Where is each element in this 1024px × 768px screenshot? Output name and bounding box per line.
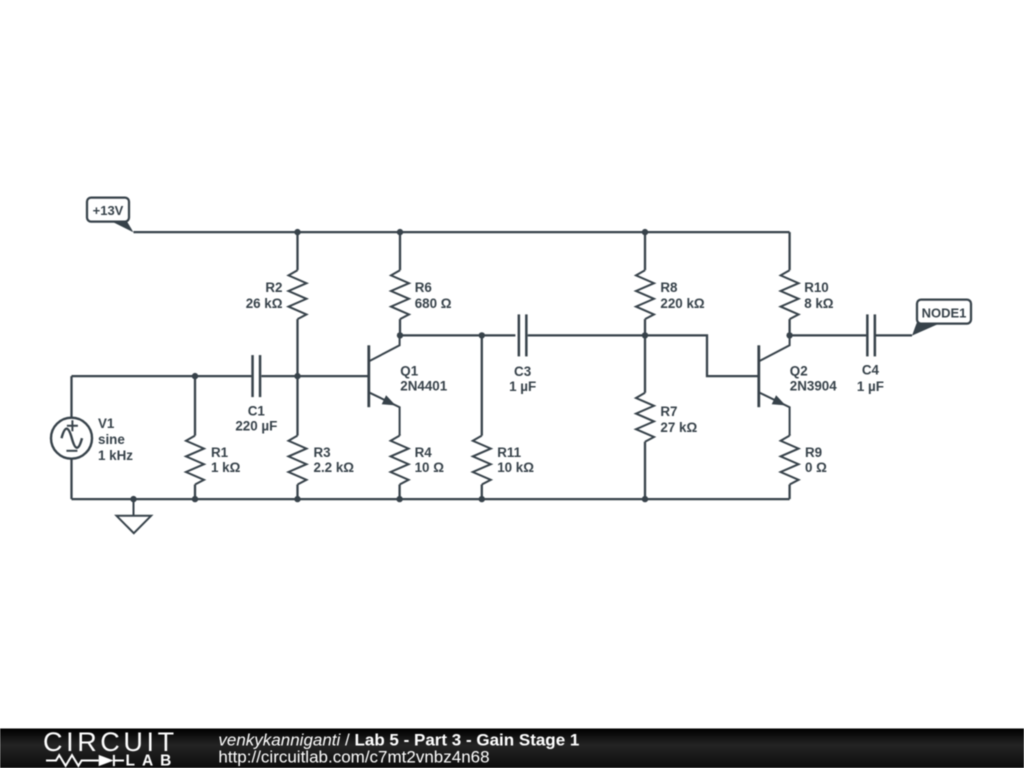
svg-text:R3: R3 xyxy=(314,445,331,460)
junction top rail at R6 xyxy=(397,229,403,235)
svg-text:R4: R4 xyxy=(415,445,433,460)
svg-text:2.2 kΩ: 2.2 kΩ xyxy=(314,460,355,475)
svg-text:1 kΩ: 1 kΩ xyxy=(211,460,241,475)
ground symbol xyxy=(117,499,152,533)
capacitor C3 xyxy=(519,314,527,356)
svg-text:R10: R10 xyxy=(804,280,829,295)
resistor R9 xyxy=(781,436,799,485)
label C1 220 uF xyxy=(235,404,277,434)
wire input line V1 to C1 xyxy=(72,375,252,377)
svg-text:Q2: Q2 xyxy=(790,363,808,378)
label R10 8 kOhm xyxy=(804,280,834,311)
junction ground rail at R11 xyxy=(479,496,485,502)
svg-text:C4: C4 xyxy=(862,363,880,378)
wire R1 bottom xyxy=(194,485,196,500)
svg-text:2N4401: 2N4401 xyxy=(400,379,447,394)
label R7 27 kOhm xyxy=(660,404,697,435)
resistor R10 xyxy=(781,270,799,319)
power net flag +13V xyxy=(87,198,134,233)
capacitor C1 xyxy=(253,355,261,397)
wire R9 bottom xyxy=(788,485,790,500)
svg-text:R9: R9 xyxy=(805,445,822,460)
svg-text:220 kΩ: 220 kΩ xyxy=(660,296,705,311)
wire R6 to Q1 collector node xyxy=(399,319,401,335)
transistor Q1 2N4401 xyxy=(369,335,400,435)
wire R2 to input node xyxy=(296,319,298,376)
junction ground rail at R3 xyxy=(294,496,300,502)
junction ground rail at ground symbol xyxy=(130,496,136,502)
junction ground rail at R1 xyxy=(192,496,198,502)
svg-text:LAB: LAB xyxy=(126,753,179,768)
svg-text:10 Ω: 10 Ω xyxy=(415,460,445,475)
label R1 1 kOhm xyxy=(211,445,241,475)
wire bottom ground rail xyxy=(72,498,790,500)
svg-text:26 kΩ: 26 kΩ xyxy=(246,296,283,311)
svg-text:C1: C1 xyxy=(248,404,266,419)
label Q1 2N4401 xyxy=(400,363,447,393)
capacitor C4 xyxy=(867,314,875,356)
junction input at R2/R3 xyxy=(294,373,300,379)
junction bias node R8/R7 xyxy=(642,332,648,338)
wire C4 to NODE1 xyxy=(876,334,912,336)
svg-text:220 µF: 220 µF xyxy=(235,419,277,434)
wire R3 bottom xyxy=(296,485,298,500)
label C4 1 uF xyxy=(857,363,884,395)
resistor R1 xyxy=(186,436,204,485)
wire R10 to Q2 collector node xyxy=(788,319,790,335)
label V1 sine 1 kHz xyxy=(98,416,133,463)
footer logo resistor-diode glyph xyxy=(46,755,124,766)
svg-text:1 µF: 1 µF xyxy=(509,379,536,394)
wire Q2 collector to C4 xyxy=(790,334,867,336)
wire top rail to R2 xyxy=(296,232,298,270)
resistor R7 xyxy=(636,393,654,442)
junction collector rail at R11 xyxy=(479,332,485,338)
footer bar xyxy=(0,729,1024,768)
wire R3 top xyxy=(296,376,298,436)
junction ground rail at R4 xyxy=(396,496,402,502)
label R3 2.2 kOhm xyxy=(314,445,355,475)
wire top power rail xyxy=(134,231,790,233)
junction input at R1 xyxy=(192,373,198,379)
resistor R6 xyxy=(391,270,409,319)
label R2 26 kOhm xyxy=(246,280,283,311)
voltage source V1 xyxy=(51,418,92,459)
label R11 10 kOhm xyxy=(497,445,534,475)
resistor R8 xyxy=(636,270,654,319)
junction top rail at R8 xyxy=(642,229,648,235)
svg-text:sine: sine xyxy=(98,432,125,447)
svg-text:R1: R1 xyxy=(211,445,229,460)
svg-text:27 kΩ: 27 kΩ xyxy=(660,420,697,435)
resistor R2 xyxy=(289,270,307,319)
wire Q2 emitter to R9 xyxy=(788,435,790,436)
wire V1 bottom to ground rail xyxy=(70,459,72,499)
svg-text:+13V: +13V xyxy=(93,203,124,218)
junction Q2 collector node xyxy=(786,332,792,338)
svg-text:0 Ω: 0 Ω xyxy=(805,460,827,475)
label R9 0 Ohm xyxy=(805,445,827,475)
svg-text:http://circuitlab.com/c7mt2vnb: http://circuitlab.com/c7mt2vnbz4n68 xyxy=(218,748,489,767)
svg-text:R8: R8 xyxy=(660,280,678,295)
label Q2 2N3904 xyxy=(790,363,837,393)
junction top rail at R2 xyxy=(294,229,300,235)
junction ground rail at R7 xyxy=(642,496,648,502)
svg-text:R6: R6 xyxy=(415,280,432,295)
wire R11 bottom xyxy=(481,485,483,500)
wire Q1 collector to C3 xyxy=(400,334,515,336)
svg-text:R11: R11 xyxy=(497,445,521,460)
wire C3 to Q2 base xyxy=(528,335,759,376)
wire R7 bottom xyxy=(644,442,646,499)
svg-text:1 µF: 1 µF xyxy=(857,379,884,394)
wire R4 bottom xyxy=(398,485,400,500)
label R8 220 kOhm xyxy=(660,280,705,311)
resistor R3 xyxy=(289,436,307,485)
wire R11 top xyxy=(481,335,483,435)
wire R8 to bias node xyxy=(644,319,646,335)
svg-text:8 kΩ: 8 kΩ xyxy=(804,296,834,311)
junction Q1 collector node xyxy=(397,332,403,338)
label R4 10 Ohm xyxy=(415,445,445,475)
wire top rail to R8 xyxy=(644,232,646,270)
wire C1 to Q1 base xyxy=(261,375,368,377)
wire top rail corner to R10 xyxy=(788,232,790,270)
label C3 1 uF xyxy=(509,364,536,394)
svg-text:C3: C3 xyxy=(514,364,531,379)
svg-text:NODE1: NODE1 xyxy=(922,306,967,321)
svg-text:V1: V1 xyxy=(98,416,115,431)
svg-text:2N3904: 2N3904 xyxy=(790,379,837,394)
wire Q1 emitter to R4 xyxy=(398,435,400,436)
svg-text:R7: R7 xyxy=(660,404,677,419)
label R6 680 Ohm xyxy=(415,280,452,311)
net flag NODE1 xyxy=(912,300,971,336)
svg-text:1 kHz: 1 kHz xyxy=(98,448,133,463)
wire top rail to R6 xyxy=(399,232,401,270)
resistor R4 xyxy=(391,436,409,485)
svg-text:10 kΩ: 10 kΩ xyxy=(497,460,534,475)
transistor Q2 2N3904 xyxy=(759,335,790,435)
wire R7 top xyxy=(644,335,646,392)
svg-text:680 Ω: 680 Ω xyxy=(415,296,452,311)
svg-text:R2: R2 xyxy=(265,280,282,295)
wire V1 top to input wire xyxy=(70,376,72,418)
resistor R11 xyxy=(473,436,491,485)
wire R1 top xyxy=(194,376,196,436)
svg-text:Q1: Q1 xyxy=(400,363,418,378)
